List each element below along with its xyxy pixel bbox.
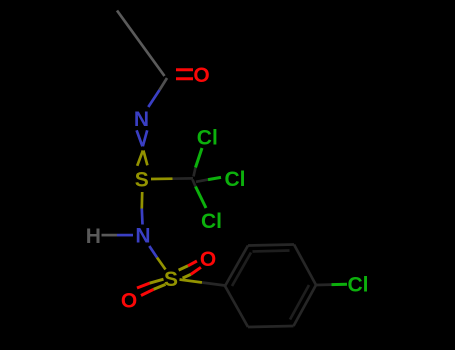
svg-text:N: N: [134, 108, 149, 131]
svg-text:S: S: [135, 169, 149, 192]
svg-text:Cl: Cl: [197, 127, 218, 150]
svg-text:Cl: Cl: [348, 274, 369, 297]
svg-text:O: O: [121, 290, 137, 313]
svg-text:O: O: [200, 248, 216, 271]
svg-text:S: S: [164, 268, 178, 291]
svg-text:Cl: Cl: [225, 168, 246, 191]
svg-text:O: O: [193, 64, 209, 87]
svg-text:H: H: [86, 225, 101, 248]
svg-text:Cl: Cl: [201, 210, 222, 233]
svg-text:N: N: [135, 225, 150, 248]
